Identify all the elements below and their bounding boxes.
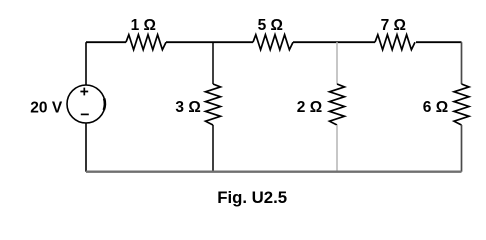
wire top rail segment: R3 to top-right corner	[416, 41, 462, 43]
resistor R5 2 ohm (vertical zigzag)	[330, 84, 345, 125]
svg-text:Fig. U2.5: Fig. U2.5	[217, 188, 287, 207]
wire left branch lower (source to bottom rail)	[85, 123, 87, 172]
resistor R4 3 ohm (vertical zigzag)	[206, 84, 221, 125]
resistor R1 1 ohm (horizontal zigzag)	[126, 35, 166, 50]
wire node A lower stub (R4 down to bottom rail)	[212, 125, 214, 172]
wire right branch lower (dark gray, R6 down to bottom rail)	[461, 125, 463, 172]
plus sign inside source	[80, 88, 88, 96]
svg-text:20 V: 20 V	[30, 99, 63, 116]
wire left branch upper (source to top rail)	[85, 42, 87, 85]
wire node B lower stub (light gray, R5 down to bottom rail)	[336, 125, 338, 172]
resistor R2 5 ohm (horizontal zigzag)	[253, 35, 293, 50]
minus sign inside source	[81, 113, 89, 115]
resistor R3 7 ohm (horizontal zigzag)	[375, 35, 415, 50]
wire top rail segment: R1 to R2 (through node A at x=213)	[166, 41, 253, 43]
wire node A upper stub (top rail down to R4)	[212, 42, 214, 84]
voltage source V1 20V (circle)	[67, 85, 105, 123]
wire node B upper stub (light gray, top rail down to R5)	[336, 42, 338, 84]
svg-text:3 Ω: 3 Ω	[175, 99, 200, 116]
resistor R6 6 ohm (vertical zigzag)	[454, 84, 469, 125]
svg-text:7 Ω: 7 Ω	[381, 17, 406, 34]
wire right branch upper (dark gray, top rail down to R6)	[461, 42, 463, 84]
svg-text:6 Ω: 6 Ω	[423, 99, 448, 116]
voltage source right-edge thick arc artifact	[104, 99, 105, 111]
svg-text:1 Ω: 1 Ω	[131, 17, 156, 34]
wire top rail segment: R2 to R3 (through node B at x=337)	[293, 41, 375, 43]
svg-text:2 Ω: 2 Ω	[297, 99, 322, 116]
wire top rail segment: left corner to R1	[86, 41, 126, 43]
svg-text:5 Ω: 5 Ω	[258, 17, 283, 34]
wire bottom rail (gray)	[86, 170, 462, 172]
